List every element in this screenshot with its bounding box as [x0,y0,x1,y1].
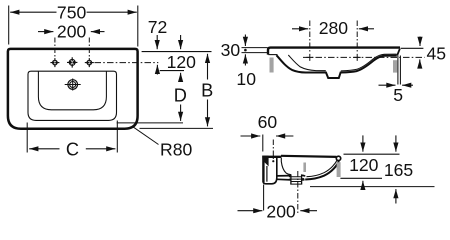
section view front curve outer [305,161,339,180]
dimension D [174,86,187,121]
section view back wall [262,156,281,184]
svg-text:200: 200 [57,22,87,42]
section view bowl back interior [281,158,291,175]
side view tap centerline vertical left [309,21,311,53]
svg-text:D: D [174,86,187,106]
side view left fixing slot gray [270,58,274,73]
dimension C [27,121,117,160]
section view bowl floor [277,175,306,180]
dimension 72 [148,17,168,75]
dimension 750 [9,3,138,47]
side view rim band [268,48,400,56]
svg-text:B: B [201,80,213,100]
tap centerline vertical right [88,38,90,58]
svg-text:5: 5 [393,85,403,105]
side view right overflow slot gray [393,60,397,72]
dimension 60 [241,112,294,136]
svg-text:200: 200 [266,202,296,222]
top edge extension line [142,51,212,53]
side view tap centerline vertical right [356,21,358,53]
dimension 120 section [349,135,379,188]
section view deck extension line [344,153,400,155]
section view tap centerline [272,140,274,163]
side view tap hole cross left [306,54,313,61]
section view drain centerline [297,171,299,214]
section view base extension line [310,186,435,188]
front view outer basin outline [8,49,138,129]
svg-text:30: 30 [221,40,241,60]
section view front curve inner [307,160,338,177]
svg-text:60: 60 [258,112,278,132]
section view deck top line [281,156,337,157]
dimension 165 [384,135,414,203]
section view wall extension line lower [263,185,265,211]
dimension 200 section [238,202,318,222]
section view front tip [336,156,340,160]
svg-text:120: 120 [349,155,379,175]
svg-text:10: 10 [236,69,256,89]
section view drain body [289,174,304,184]
dimension 280 [292,18,374,38]
side view horizontal centerline [303,56,425,58]
faucet hole middle [67,57,77,67]
tap centerline vertical left [54,38,56,58]
dimension 30 [221,35,247,61]
svg-text:C: C [66,139,79,159]
svg-text:165: 165 [384,160,414,180]
section view bowl bottom extension line [340,177,382,179]
dimension 10 [236,54,256,89]
dimension B [201,54,213,127]
dimension 45 extension line [401,47,424,49]
side view front edge double line [398,56,401,85]
dimension 5 [379,85,414,105]
section view wall extension line upper [262,135,264,152]
section view overflow channel gray [303,163,306,173]
svg-text:120: 120 [167,52,197,72]
R80 leader and label [134,127,193,159]
deck bottom extension line [117,122,183,124]
bottom edge extension line [140,127,214,129]
section view front overflow gray [337,162,341,177]
side view bowl inner line [288,54,396,71]
svg-text:72: 72 [148,17,168,37]
front view bowl outline [38,71,106,110]
svg-text:280: 280 [319,18,349,38]
side view bowl outer profile [277,55,397,78]
faucet hole right [85,58,94,67]
dimension 30 extension lines [242,48,268,53]
front view inner deck outline [28,71,117,120]
dimension 200 front [38,22,105,42]
tap centerline horizontal [95,62,159,64]
side view tap hole cross right [354,54,361,61]
drain symbol [65,79,81,91]
dimension 120 front [160,35,196,82]
svg-text:45: 45 [427,43,447,63]
svg-text:R80: R80 [160,140,192,160]
svg-text:750: 750 [57,3,87,23]
faucet hole left [50,58,59,67]
dimension 45 [420,37,446,69]
